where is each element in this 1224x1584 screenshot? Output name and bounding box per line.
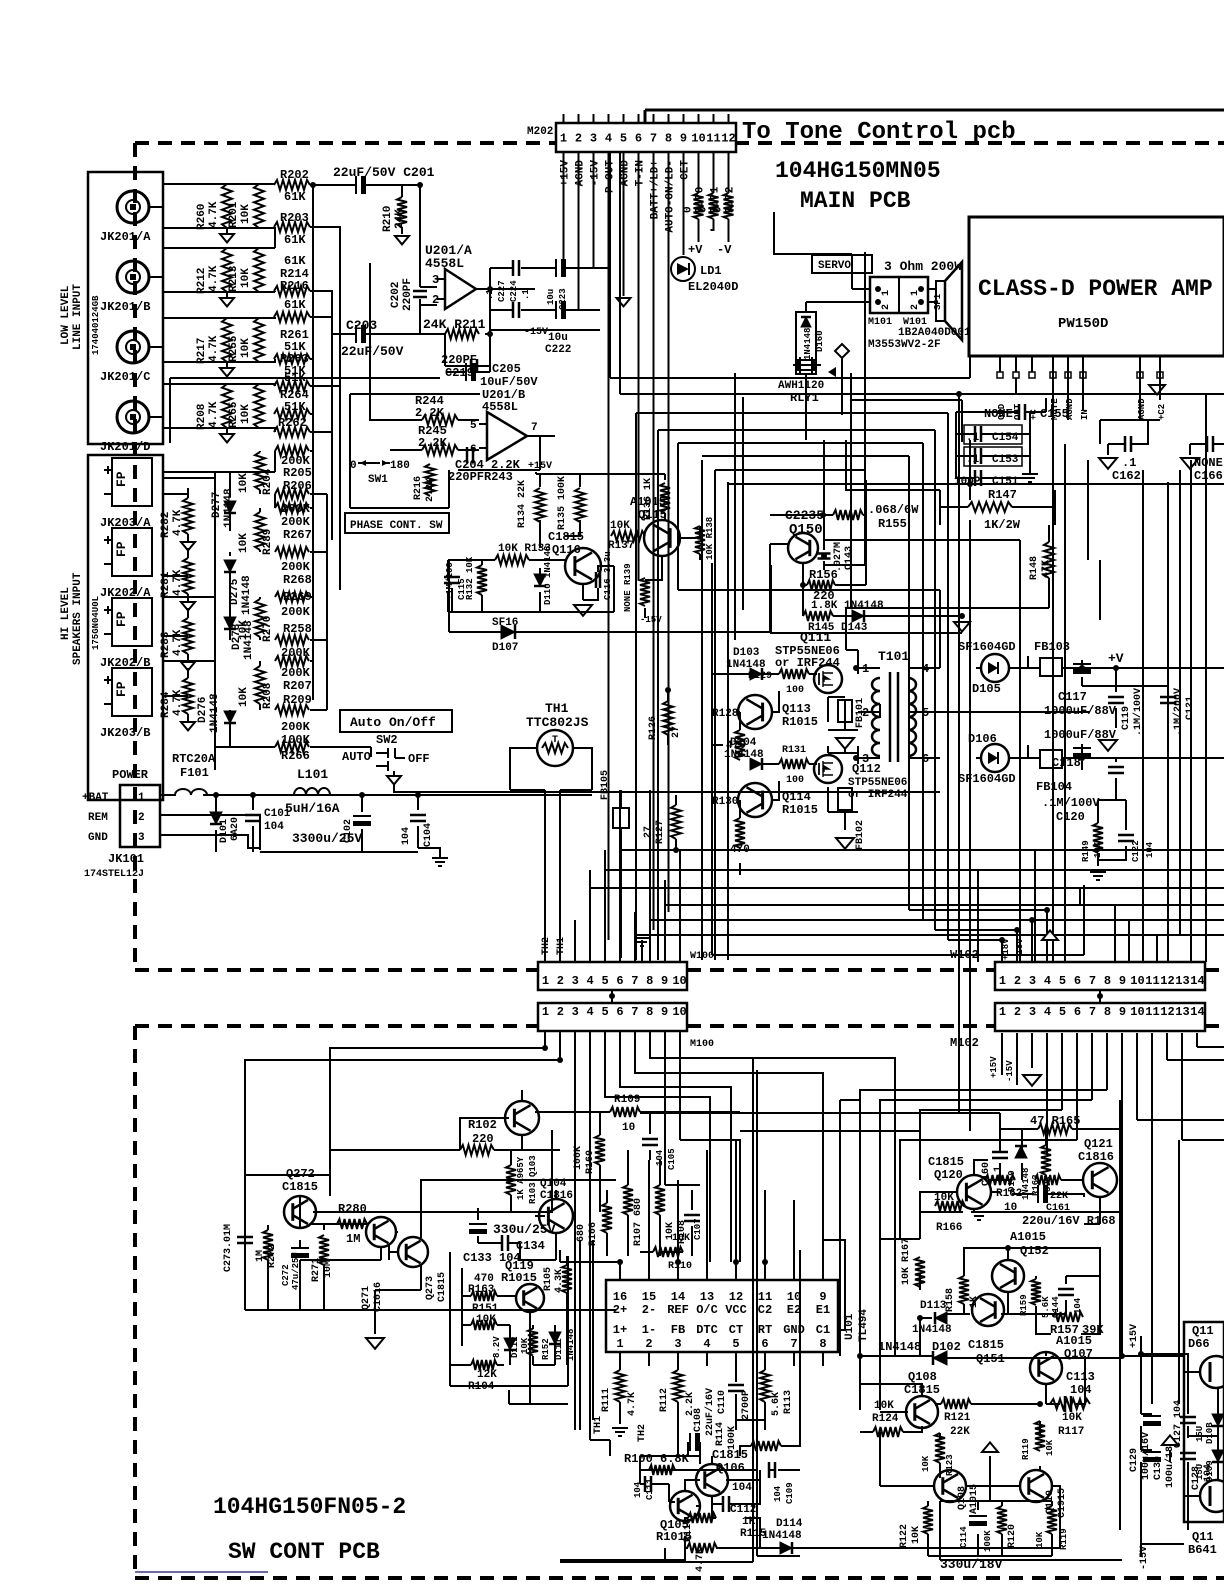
label 8.2V D112 — [492, 1336, 520, 1358]
ground grp 1 — [220, 298, 234, 306]
wire opamp b — [370, 263, 555, 470]
svg-text:R149: R149 — [1081, 840, 1091, 862]
capacitor C108 22uF/16V — [690, 1433, 700, 1451]
capacitor C227 sym — [513, 302, 519, 318]
svg-text:Q108: Q108 — [908, 1370, 937, 1384]
svg-text:100K: 100K — [727, 1426, 738, 1450]
svg-text:4.7K: 4.7K — [172, 569, 184, 596]
svg-text:2: 2 — [1014, 974, 1021, 988]
svg-text:C109: C109 — [785, 1482, 795, 1504]
svg-text:5: 5 — [601, 974, 608, 988]
svg-text:-15V: -15V — [524, 327, 548, 338]
label +15V right — [1129, 1324, 1140, 1348]
wires rectifier rails — [1009, 656, 1224, 866]
svg-text:9: 9 — [1119, 974, 1126, 988]
svg-text:FB: FB — [671, 1323, 685, 1337]
svg-text:4: 4 — [605, 132, 612, 146]
svg-text:9: 9 — [819, 1290, 826, 1304]
svg-text:NONE: NONE — [984, 407, 1013, 421]
wires mid transistors — [448, 513, 700, 618]
svg-text:6A20: 6A20 — [230, 817, 241, 841]
svg-text:8: 8 — [646, 974, 653, 988]
svg-text:C166: C166 — [1194, 469, 1223, 483]
svg-text:C110: C110 — [717, 1390, 728, 1414]
capacitor C129 100u/16V — [1143, 1416, 1161, 1426]
label C130 100u/18V — [1153, 1440, 1176, 1488]
resistor R214 61K — [274, 286, 310, 296]
resistor 200K row 6 — [275, 656, 309, 666]
svg-text:2700P: 2700P — [741, 1390, 752, 1420]
resistor R172 — [724, 193, 734, 219]
svg-text:10K: 10K — [1045, 1439, 1055, 1456]
class-d pins — [997, 356, 1167, 420]
svg-text:T101: T101 — [878, 649, 909, 664]
wire jack 4 out — [149, 416, 163, 418]
svg-text:R166: R166 — [936, 1222, 962, 1234]
svg-text:L101: L101 — [297, 767, 328, 782]
svg-text:6: 6 — [1074, 1005, 1081, 1019]
svg-text:4.7K: 4.7K — [208, 265, 220, 292]
capacitor C112 — [723, 1496, 729, 1512]
svg-text:61K: 61K — [284, 190, 306, 204]
capacitor C134 — [502, 1235, 508, 1251]
capacitor C118 1000uF/88V — [1073, 748, 1091, 758]
svg-text:1: 1 — [138, 792, 145, 804]
svg-text:100: 100 — [786, 685, 804, 696]
label R270 — [238, 616, 274, 642]
svg-text:2: 2 — [645, 1337, 652, 1351]
svg-text:C120: C120 — [1056, 810, 1085, 824]
label D101 — [219, 817, 241, 843]
svg-text:61K: 61K — [284, 298, 306, 312]
svg-text:+V: +V — [688, 243, 703, 257]
svg-text:12: 12 — [1160, 974, 1174, 988]
svg-text:C272: C272 — [281, 1264, 291, 1286]
speaker terminal JK203/B — [112, 668, 152, 716]
transformer T101 pins — [862, 662, 929, 766]
svg-text:4: 4 — [587, 1005, 594, 1019]
label 22K C161 — [1046, 1191, 1070, 1214]
capacitor C115 sym — [444, 577, 460, 583]
svg-text:Q152: Q152 — [1020, 1244, 1049, 1258]
svg-text:TH1: TH1 — [545, 701, 569, 716]
wires below tl494 — [590, 1366, 765, 1456]
capacitor C115 — [445, 562, 467, 600]
tl494 top pin wires — [560, 1140, 845, 1330]
transformer T101 — [872, 678, 880, 756]
svg-text:.1: .1 — [1122, 456, 1136, 470]
label 5.6K R113 — [771, 1390, 794, 1416]
svg-text:16: 16 — [613, 1290, 627, 1304]
label D113 1N4148 — [912, 1300, 952, 1336]
label L04 C112 — [730, 1482, 756, 1516]
svg-text:4: 4 — [703, 1337, 710, 1351]
svg-text:1K/2W: 1K/2W — [984, 518, 1021, 532]
svg-text:AUTO-ON/LD-: AUTO-ON/LD- — [665, 160, 677, 233]
svg-text:SF1604GD: SF1604GD — [958, 640, 1016, 654]
resistor R280 1M — [337, 1219, 367, 1229]
svg-text:47K: 47K — [1041, 560, 1052, 578]
ground grp 2 — [220, 368, 234, 376]
svg-text:.1: .1 — [521, 289, 531, 300]
svg-text:5: 5 — [1059, 974, 1066, 988]
transistor Q108 — [906, 1396, 938, 1428]
capacitor C151 sym — [975, 470, 981, 486]
capacitor C160 .1 — [992, 1152, 1008, 1158]
label 10K R124 — [872, 1400, 899, 1425]
resistor 200K row 0 — [275, 446, 309, 456]
resistor R158 1K — [959, 1276, 969, 1304]
connector W100 — [538, 962, 687, 990]
label Q273 C1015 — [425, 1272, 448, 1302]
resistor R151 10K — [471, 1320, 497, 1330]
svg-text:2: 2 — [138, 812, 145, 824]
M202 pin wires down — [564, 152, 729, 940]
resistor R117 10K — [1050, 1399, 1090, 1409]
rca jack JK201/A — [117, 191, 149, 223]
M202 pin ticks — [564, 114, 729, 123]
resistor R282 4.7K — [183, 498, 193, 534]
resistor R202 61K — [274, 180, 310, 190]
svg-text:180: 180 — [390, 460, 410, 472]
label Q110 C1015 — [1045, 1488, 1068, 1518]
svg-text:R206: R206 — [283, 479, 312, 493]
svg-text:10K: 10K — [240, 338, 252, 358]
svg-text:C115: C115 — [457, 578, 467, 600]
label C272 47u/25V — [281, 1252, 301, 1290]
svg-text:FP: FP — [114, 611, 129, 627]
svg-text:HI LEVEL: HI LEVEL — [60, 587, 72, 640]
label R126 27 — [648, 716, 682, 740]
svg-text:10: 10 — [622, 1122, 635, 1134]
capacitor C101 104 — [245, 815, 261, 821]
svg-text:10K R138: 10K R138 — [705, 517, 715, 560]
label D159 1N4148 — [1007, 1168, 1031, 1200]
bus lines mid right — [170, 152, 1224, 1131]
svg-text:7: 7 — [790, 1337, 797, 1351]
speaker connector M101 W101 — [870, 277, 928, 313]
capacitor C121 — [1160, 697, 1176, 703]
label R128 470 — [712, 708, 746, 752]
svg-text:M100: M100 — [690, 1039, 714, 1050]
servo box — [812, 255, 872, 273]
diode D112 8.2V — [504, 1338, 516, 1350]
capacitor C109 104 — [769, 1462, 775, 1478]
resistor R118 4.7K — [687, 1543, 717, 1553]
svg-text:R203: R203 — [280, 211, 309, 225]
wires right box — [1184, 1372, 1218, 1496]
svg-text:RT: RT — [758, 1323, 772, 1337]
svg-text:10K: 10K — [901, 1267, 912, 1285]
resistor R105 — [562, 1265, 572, 1293]
svg-text:9: 9 — [661, 974, 668, 988]
svg-text:200K: 200K — [281, 720, 311, 734]
w100 pin wires up — [575, 790, 680, 962]
svg-text:27: 27 — [643, 826, 654, 838]
ferrite FB105 — [613, 808, 629, 828]
svg-text:C105: C105 — [667, 1148, 677, 1170]
svg-text:1-: 1- — [642, 1323, 656, 1337]
label R130 470 — [712, 796, 750, 856]
resistor R284 4.7K — [183, 678, 193, 714]
resistor R119b 10K — [1047, 1506, 1057, 1534]
svg-text:C129: C129 — [1129, 1448, 1140, 1472]
svg-text:C1815: C1815 — [928, 1155, 964, 1169]
label 1N4148 D160 — [803, 328, 825, 360]
transistor Q117 partial — [1200, 1480, 1224, 1512]
diode D101 6A20 — [210, 812, 222, 824]
svg-text:R128: R128 — [712, 708, 739, 720]
svg-text:4.7K: 4.7K — [208, 401, 220, 428]
transistor Q272 — [284, 1196, 316, 1228]
svg-text:5.6K: 5.6K — [771, 1392, 782, 1416]
label D110 1N4148 — [543, 546, 553, 605]
svg-text:1: 1 — [560, 132, 567, 146]
diode D114 1N4148 — [780, 1542, 792, 1554]
svg-text:-V: -V — [717, 243, 732, 257]
svg-text:10K: 10K — [934, 1192, 954, 1204]
svg-text:12: 12 — [729, 1290, 743, 1304]
label +18V — [1001, 938, 1025, 960]
label Q109 A1015 — [957, 1484, 980, 1514]
ground spk 1 — [181, 602, 195, 610]
label C160 .1 — [981, 1162, 1004, 1186]
svg-text:A1015: A1015 — [1010, 1230, 1046, 1244]
svg-text:11: 11 — [1145, 974, 1159, 988]
svg-text:BATT+/LD+: BATT+/LD+ — [650, 160, 662, 220]
label 10K R166 — [934, 1192, 962, 1234]
ground class-d — [1149, 385, 1165, 395]
wire c166 — [1190, 444, 1224, 455]
label C104 — [401, 823, 434, 847]
svg-text:C108: C108 — [693, 1408, 704, 1432]
transistor Q152 — [992, 1260, 1024, 1292]
svg-text:D112: D112 — [510, 1336, 520, 1358]
svg-text:R114: R114 — [715, 1422, 726, 1446]
svg-text:IN: IN — [1080, 409, 1090, 420]
svg-text:D277: D277 — [211, 492, 223, 518]
svg-text:R134 22K: R134 22K — [517, 480, 528, 528]
wire 61K ladder right bus — [310, 185, 340, 700]
resistor R104 12K — [471, 1360, 497, 1370]
label 10K R110 — [668, 1233, 692, 1272]
capacitor C161 220u/16V — [1038, 1185, 1048, 1203]
svg-text:C162: C162 — [1112, 469, 1141, 483]
resistor 200K row 7 — [275, 705, 309, 715]
labels R208 — [196, 401, 252, 430]
svg-text:D114: D114 — [776, 1518, 803, 1530]
wire jack 3 out — [149, 346, 163, 348]
label C144 104 — [1051, 1296, 1083, 1318]
svg-text:or IRF244: or IRF244 — [775, 656, 840, 670]
svg-text:5: 5 — [601, 1005, 608, 1019]
label R163 39K — [1031, 1174, 1053, 1196]
svg-text:TH1: TH1 — [593, 1416, 604, 1434]
power connector JK101 — [120, 785, 160, 847]
svg-text:C113: C113 — [1066, 1370, 1095, 1384]
capacitor C219 220PF — [471, 359, 477, 373]
capacitor C154 sym — [975, 426, 981, 442]
svg-text:D102: D102 — [932, 1340, 961, 1354]
svg-text:To Tone Control pcb: To Tone Control pcb — [742, 119, 1016, 146]
svg-text:220PFR243: 220PFR243 — [448, 470, 513, 484]
svg-text:24K: 24K — [394, 209, 406, 229]
svg-text:AUTO: AUTO — [342, 750, 371, 764]
svg-text:JK203/B: JK203/B — [100, 726, 150, 740]
m100 fanout buses — [245, 1031, 895, 1440]
svg-text:5: 5 — [470, 420, 477, 432]
arrow gnd c128 — [1162, 1435, 1178, 1445]
label D278 text — [231, 620, 255, 660]
svg-text:R268: R268 — [283, 573, 312, 587]
resistor R152 10K — [528, 1329, 538, 1356]
label 10u C223 — [546, 288, 568, 310]
label R134 22K — [517, 480, 528, 528]
svg-text:M202: M202 — [527, 126, 553, 138]
diode D104 — [750, 758, 762, 770]
earth r111 — [612, 1428, 628, 1436]
svg-text:10: 10 — [691, 132, 705, 146]
transistor Q271 — [366, 1217, 396, 1247]
wire spk 2 — [187, 608, 189, 662]
label R156 220 — [809, 568, 838, 603]
capacitor C107 104 — [693, 1218, 703, 1240]
svg-text:51K: 51K — [284, 400, 306, 414]
capacitor C116 3.3u — [596, 572, 600, 588]
svg-text:104: 104 — [732, 1482, 752, 1494]
label R127 27 — [643, 820, 666, 844]
label R204 — [238, 468, 274, 495]
label C116 3.3u — [603, 551, 613, 600]
resistor 200K row 8 — [275, 742, 309, 752]
svg-text:C1815: C1815 — [968, 1338, 1004, 1352]
svg-text:174STEL12J: 174STEL12J — [84, 869, 144, 880]
ground grp 3 — [220, 434, 234, 442]
svg-text:100: 100 — [786, 775, 804, 786]
svg-text:7: 7 — [631, 974, 638, 988]
svg-text:POWER: POWER — [112, 768, 149, 782]
svg-text:1K A965Y: 1K A965Y — [516, 1156, 526, 1200]
resistor R216 2.2K — [425, 464, 435, 496]
bus vertical right cluster — [978, 470, 1180, 962]
ground q27x — [366, 1338, 384, 1349]
wire c202 pins — [420, 287, 535, 334]
svg-text:Q11: Q11 — [1192, 1530, 1214, 1544]
svg-text:R122: R122 — [899, 1524, 910, 1548]
svg-text:200K: 200K — [281, 560, 311, 574]
svg-text:14: 14 — [1190, 974, 1204, 988]
svg-text:R158: R158 — [945, 1288, 956, 1312]
arrow mid bottom — [982, 1442, 998, 1452]
label 1K A965Y — [516, 1155, 538, 1204]
diode D111 — [549, 1332, 561, 1344]
svg-text:C116 3.3u: C116 3.3u — [603, 551, 613, 600]
label 104 C109 — [773, 1482, 795, 1504]
resistor R107 680 — [623, 1185, 633, 1215]
capacitor C133 — [469, 1224, 487, 1234]
svg-text:JK201/A: JK201/A — [100, 230, 151, 244]
svg-text:14: 14 — [1190, 1005, 1204, 1019]
svg-text:C1815: C1815 — [437, 1272, 448, 1302]
svg-text:+15V: +15V — [989, 1056, 999, 1078]
label R138 10K — [705, 517, 715, 560]
svg-text:AGND: AGND — [1137, 398, 1147, 420]
svg-text:D10B: D10B — [1205, 1422, 1215, 1444]
resistor R213 10K — [254, 248, 264, 292]
svg-text:D105: D105 — [972, 682, 1001, 696]
line input box — [88, 172, 163, 444]
svg-text:4.7K: 4.7K — [172, 689, 184, 716]
resistor R211 24K — [445, 329, 479, 339]
svg-text:R119: R119 — [1021, 1438, 1031, 1460]
capacitor C102 3300u/25V — [353, 816, 371, 826]
svg-text:D160: D160 — [815, 330, 825, 352]
label D103 1N4148 — [726, 647, 766, 671]
label 470 R163 — [468, 1273, 495, 1296]
resistor R134 22K — [535, 488, 545, 522]
wire speaker ladder buses — [163, 440, 371, 770]
svg-text:104HG150MN05: 104HG150MN05 — [775, 158, 941, 184]
label TH2 vert — [541, 937, 567, 955]
svg-text:1: 1 — [999, 1005, 1006, 1019]
label R120 — [1007, 1524, 1018, 1548]
label C273 .01M — [223, 1224, 234, 1272]
svg-text:D109: D109 — [1205, 1460, 1215, 1482]
resistor R132 10K — [477, 565, 487, 595]
svg-text:10u: 10u — [546, 289, 556, 305]
resistor R272 — [263, 1230, 273, 1260]
capacitor C201 — [356, 176, 366, 194]
svg-text:R217: R217 — [196, 338, 208, 364]
svg-text:R216: R216 — [280, 279, 309, 293]
labels R217 — [196, 335, 252, 364]
svg-text:+15V: +15V — [560, 160, 572, 187]
svg-text:D113: D113 — [920, 1300, 947, 1312]
label R159 5.6K — [1019, 1294, 1051, 1318]
resistor R130 — [735, 818, 745, 848]
svg-text:R167: R167 — [901, 1238, 912, 1262]
svg-text:200K: 200K — [281, 515, 311, 529]
svg-text:10K: 10K — [240, 268, 252, 288]
speaker terminal JK203/A — [112, 458, 152, 506]
right output box — [1184, 1322, 1224, 1522]
wire resistors grp 3 — [163, 384, 275, 434]
transistor Q150 — [788, 533, 818, 563]
wire th1 — [510, 748, 592, 962]
svg-text:+15V: +15V — [528, 461, 552, 472]
svg-text:4: 4 — [1044, 1005, 1051, 1019]
resistor R265 10K — [254, 384, 264, 428]
svg-text:1N4148: 1N4148 — [762, 1530, 802, 1542]
svg-text:R207: R207 — [283, 679, 312, 693]
svg-text:STP55NE06: STP55NE06 — [848, 777, 907, 789]
svg-text:680: 680 — [576, 1224, 587, 1242]
wire to tone control — [645, 110, 1224, 123]
svg-text:JK201/D: JK201/D — [100, 440, 150, 454]
label 15U D109 — [1195, 1460, 1215, 1482]
svg-text:NONE R139: NONE R139 — [623, 563, 633, 612]
svg-text:4.7K: 4.7K — [208, 201, 220, 228]
capacitor C104 104 — [410, 815, 426, 821]
svg-text:M101: M101 — [868, 317, 892, 328]
label TH1 bottom — [593, 1416, 604, 1434]
transistor Q105 — [670, 1491, 700, 1521]
resistor R157 39K — [1053, 1312, 1083, 1322]
svg-text:Q271: Q271 — [361, 1286, 372, 1310]
svg-text:4.7K: 4.7K — [208, 335, 220, 362]
resistor R283 4.7K — [183, 618, 193, 654]
svg-text:JK201/B: JK201/B — [100, 300, 150, 314]
